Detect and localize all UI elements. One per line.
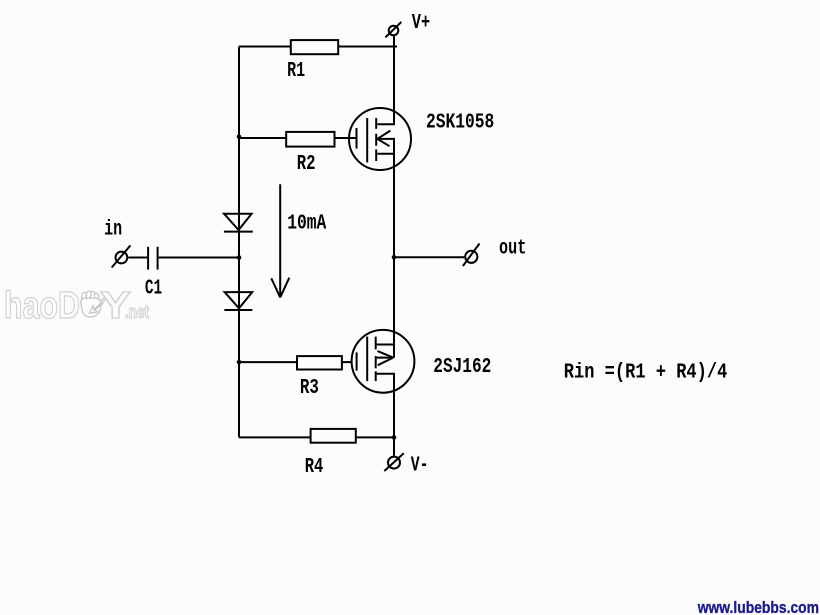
svg-text:10mA: 10mA — [287, 213, 326, 236]
svg-text:V+: V+ — [412, 12, 430, 35]
svg-text:C1: C1 — [145, 277, 162, 300]
svg-text:R2: R2 — [297, 153, 316, 176]
svg-text:R4: R4 — [305, 456, 324, 479]
svg-text:2SK1058: 2SK1058 — [426, 111, 494, 134]
svg-text:out: out — [499, 237, 526, 260]
svg-text:in: in — [104, 219, 122, 242]
svg-text:.net: .net — [125, 302, 149, 322]
svg-text:2SJ162: 2SJ162 — [433, 356, 491, 379]
svg-text:www.lubebbs.com: www.lubebbs.com — [697, 598, 819, 615]
svg-text:R3: R3 — [300, 377, 319, 400]
svg-text:V-: V- — [411, 454, 429, 477]
svg-text:Rin =(R1 + R4)/4: Rin =(R1 + R4)/4 — [564, 362, 728, 385]
svg-text:R1: R1 — [287, 60, 305, 83]
svg-text:haoD: haoD — [4, 285, 80, 327]
